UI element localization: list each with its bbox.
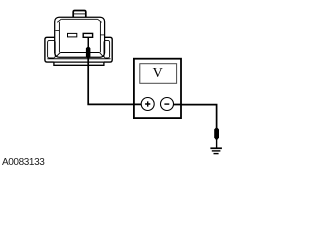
plus sign xyxy=(145,101,150,106)
ground lead wire xyxy=(216,139,217,147)
wire from negative lead to ground xyxy=(174,105,217,130)
ground symbol bar 2 xyxy=(212,150,221,151)
inner wall tick marks xyxy=(55,31,104,35)
voltmeter display window xyxy=(140,64,177,84)
minus sign xyxy=(164,103,169,105)
wire from probe to voltmeter positive lead xyxy=(88,58,141,104)
left latch ear xyxy=(45,37,55,62)
ground symbol bar 1 xyxy=(210,147,222,149)
ground probe thick body xyxy=(214,128,219,140)
negative terminal circle xyxy=(161,98,174,111)
connector corner chamfer diagonals xyxy=(56,19,104,57)
svg-text:V: V xyxy=(153,66,163,81)
connector base skirt outer contour xyxy=(54,62,104,65)
probe pin thick body xyxy=(86,47,91,59)
connector J1 body tab xyxy=(73,11,86,18)
positive terminal circle xyxy=(141,98,154,111)
probe pin stem in slot xyxy=(88,38,90,47)
connector J1 inner offset outline xyxy=(59,19,100,52)
right latch ear inner line xyxy=(104,40,110,58)
terminal cavity slot (right, probed) xyxy=(83,33,92,37)
left latch ear inner line xyxy=(48,40,56,58)
voltmeter V1 box xyxy=(134,59,181,118)
figure number label xyxy=(2,157,44,168)
connector J1 outer shell xyxy=(55,17,105,57)
base top line xyxy=(47,58,110,60)
right latch ear xyxy=(104,37,112,62)
ground symbol bar 3 xyxy=(214,153,219,154)
terminal cavity slot (left, empty) xyxy=(68,33,77,37)
